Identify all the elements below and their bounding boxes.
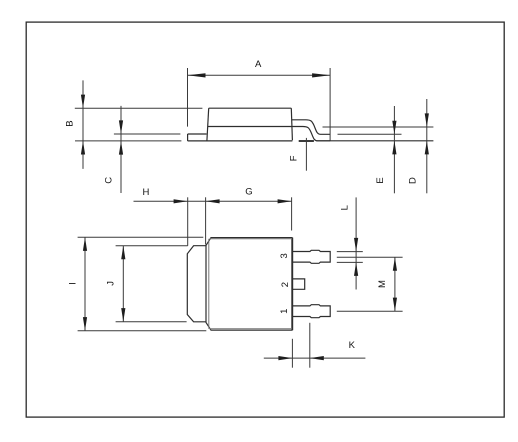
body outline with chamfered left corners (206, 238, 292, 331)
seating reference line extended left for B (75, 140, 181, 142)
body bottom edge / seating (188, 140, 293, 142)
tab-bottom reference line extended left for J (116, 321, 187, 323)
dim A extension line right (329, 68, 331, 141)
tab outline (187, 246, 206, 322)
tab top edge (188, 133, 207, 135)
dim K ext line at body edge (291, 339, 293, 368)
dim K dimension line (264, 357, 366, 359)
dim A dimension line (188, 74, 331, 76)
tab-top reference line extended left for C (114, 133, 180, 135)
dim A extension line left (187, 68, 189, 127)
pin3 bottom reference line (337, 261, 363, 263)
dim G arrow left (left-pointing) (206, 199, 220, 203)
dim H/G dimension line (134, 200, 292, 202)
dim B vertical line (82, 80, 84, 168)
dim D bottom arrow (425, 141, 429, 155)
dim L top arrow (354, 238, 358, 252)
dim B bottom arrow (81, 141, 85, 155)
svg-text:H: H (142, 187, 149, 198)
svg-text:B: B (65, 120, 76, 126)
svg-text:A: A (255, 59, 262, 70)
foot-top reference line for E (338, 133, 402, 135)
dim B top arrow (81, 95, 85, 109)
svg-text:D: D (408, 177, 419, 184)
inner draft line vertical (208, 239, 210, 329)
dim I top arrow (83, 237, 87, 251)
svg-text:E: E (375, 177, 386, 183)
dim A arrow right (312, 73, 330, 77)
lead top line with bend (292, 120, 330, 135)
body top edge (209, 107, 292, 109)
ext line at tab left edge (H) (187, 197, 189, 246)
body left slant edge (207, 108, 209, 141)
dim A arrow left (188, 73, 206, 77)
body right slant edge (291, 108, 292, 140)
dim J vertical line (122, 246, 124, 322)
tab left edge (187, 134, 189, 141)
svg-text:J: J (106, 281, 117, 286)
dim H arrow (right-pointing, outside) (174, 199, 188, 203)
pin 1 (292, 305, 330, 318)
svg-text:C: C (104, 177, 115, 184)
body-top reference line extended left for B (75, 107, 203, 109)
dim M vertical line (394, 257, 396, 311)
dim C bottom arrow (119, 141, 123, 155)
svg-text:L: L (340, 205, 351, 210)
dim E top arrow (392, 121, 396, 135)
dim K arrow left (right-pointing, outside) (278, 356, 292, 360)
inner draft line bottom (210, 328, 293, 330)
dim E vertical line (393, 106, 395, 193)
dim M bottom arrow (393, 298, 397, 312)
svg-text:3: 3 (279, 253, 290, 258)
dim E bottom arrow (392, 141, 396, 155)
svg-text:1: 1 (279, 309, 290, 314)
dim K arrow right (left-pointing, outside) (310, 356, 324, 360)
svg-text:G: G (245, 186, 252, 197)
dim J top arrow (121, 246, 125, 260)
dim F vertical line (305, 138, 307, 171)
pin 2 stub (293, 279, 305, 289)
dim J bottom arrow (121, 308, 125, 322)
pin1 centerline reference (337, 310, 403, 312)
dim D vertical line (426, 99, 428, 193)
body mold line (208, 126, 292, 128)
svg-text:M: M (377, 280, 388, 288)
dim I vertical line (84, 237, 86, 330)
ext line at body right edge (G) (291, 197, 293, 230)
pin3 top reference line (337, 251, 363, 253)
package body side view (188, 108, 434, 141)
ext line at body left edge (H/G) (205, 197, 207, 244)
svg-text:2: 2 (280, 282, 291, 287)
body-top reference line extended left for I (78, 236, 204, 238)
tab-top reference line extended left for J (116, 245, 188, 247)
dim D top arrow (425, 113, 429, 127)
dim I bottom arrow (83, 317, 87, 331)
svg-text:F: F (288, 155, 299, 161)
svg-text:I: I (68, 282, 79, 285)
dim G arrow right (278, 199, 292, 203)
lead-exit reference line for D (323, 126, 434, 128)
dim C top arrow (119, 120, 123, 134)
svg-text:K: K (349, 340, 356, 351)
body-bottom reference line extended left for I (78, 330, 207, 332)
dim F crossbar (299, 140, 314, 142)
dim K ext line at pin bulge (309, 323, 311, 368)
lead bottom line with bend (292, 127, 330, 141)
inner draft line top (210, 238, 293, 240)
body right edge emphasis (292, 238, 294, 331)
body top view outline (187, 238, 292, 331)
dim M top arrow (393, 257, 397, 271)
pin3 centerline reference (337, 256, 403, 258)
dim L vertical line (355, 197, 357, 289)
lead foot bottom extension (317, 140, 434, 142)
pin 3 (292, 250, 330, 263)
dim L bottom arrow (354, 262, 358, 276)
dim C vertical line (120, 106, 122, 193)
